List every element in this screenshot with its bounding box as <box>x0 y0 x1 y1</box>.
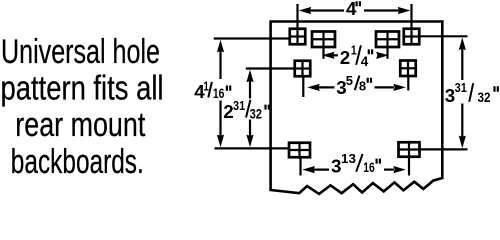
D6 arrowhead up <box>246 70 253 83</box>
svg-text:8: 8 <box>359 78 366 93</box>
dimension D4 3 13/16 extension stubs <box>301 157 410 176</box>
svg-text:3: 3 <box>445 85 455 106</box>
svg-text:32: 32 <box>250 105 263 121</box>
D1 inch quote <box>357 1 360 6</box>
hole H4 top-inner-right slot <box>376 32 399 48</box>
D6 inch quote <box>266 105 269 110</box>
hole H7 bottom-left slot <box>289 143 310 158</box>
hole H3 top-inner-left slot <box>312 32 335 48</box>
svg-text:2: 2 <box>340 47 350 68</box>
caption text block <box>1 33 164 181</box>
D1 arrowhead right <box>398 7 411 14</box>
D5 inch quote <box>227 86 230 91</box>
D2 arrowhead right <box>376 52 389 59</box>
D4 inch quote <box>377 159 380 164</box>
backboard plate outline with torn bottom edge <box>271 22 443 194</box>
D7 inch quote <box>495 86 498 92</box>
hole H1 top-left square <box>290 29 306 45</box>
svg-text:13: 13 <box>341 151 356 166</box>
svg-text:16: 16 <box>213 85 225 101</box>
hole H2 top-right square <box>404 29 420 45</box>
D6 label 2 31/32 <box>223 98 262 122</box>
dimension D7 3 31/32 right extension lines <box>419 36 467 149</box>
svg-text:4: 4 <box>361 54 369 69</box>
D2 inch quote <box>369 49 372 54</box>
D7 label 3 31/32 <box>445 80 491 106</box>
D3 label 3 5/8 <box>336 73 366 98</box>
D3 fraction slash <box>355 76 360 91</box>
D6 arrowhead down <box>246 135 253 148</box>
dimension D3 3 5/8 extension stubs <box>303 76 408 97</box>
D3 arrowhead left <box>307 84 320 91</box>
hole H6 mid-right square <box>400 61 416 77</box>
D5 fraction slash <box>208 82 212 98</box>
svg-text:Universal hole: Universal hole <box>1 33 160 71</box>
svg-text:16: 16 <box>363 160 375 175</box>
D4 fraction slash <box>356 154 362 172</box>
hole H5 mid-left square <box>295 61 311 77</box>
svg-text:31: 31 <box>233 98 245 113</box>
svg-text:5: 5 <box>346 73 353 88</box>
dimension D6 2 31/32 left inner extension line <box>246 69 295 137</box>
svg-text:1: 1 <box>203 79 209 94</box>
svg-text:1: 1 <box>351 42 357 57</box>
D2 fraction slash <box>356 45 361 65</box>
svg-text:32: 32 <box>478 90 491 105</box>
svg-text:3: 3 <box>331 156 341 177</box>
D2 arrowhead left <box>322 52 335 59</box>
svg-text:pattern fits all: pattern fits all <box>1 70 164 108</box>
D1 arrowhead left <box>299 7 312 14</box>
D7 arrowhead down <box>459 136 466 149</box>
D4 arrowhead left <box>302 166 315 173</box>
D5 label 4 1/16 <box>194 79 224 103</box>
D7 arrowhead up <box>459 38 466 51</box>
svg-text:backboards.: backboards. <box>11 143 144 181</box>
D5 arrowhead up <box>217 40 224 53</box>
svg-text:4: 4 <box>346 0 357 19</box>
D2 label 2 1/4 <box>340 42 369 69</box>
D7 fraction slash <box>469 83 473 102</box>
D6 fraction slash <box>246 100 250 118</box>
dimension D5 4 1/16 left outer extension lines <box>214 39 290 149</box>
D4 label 3 13/16 <box>331 151 375 177</box>
hole H8 bottom-right slot <box>399 142 420 157</box>
svg-text:rear mount: rear mount <box>15 106 145 144</box>
dimension D2 2 1/4 extension stubs <box>324 47 388 59</box>
D3 inch quote <box>368 78 371 83</box>
D3 arrowhead right <box>393 84 406 91</box>
svg-text:31: 31 <box>455 80 467 95</box>
D4 arrowhead right <box>393 166 406 173</box>
dimension D1 4inch ticks <box>298 4 412 29</box>
D5 arrowhead down <box>217 135 224 148</box>
